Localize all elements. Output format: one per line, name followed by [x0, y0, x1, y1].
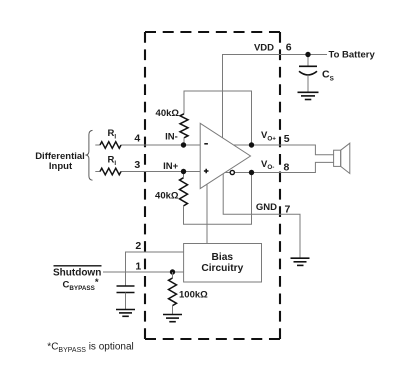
brace for differential input: [85, 130, 92, 180]
svg-text:7: 7: [285, 204, 291, 216]
svg-text:4: 4: [134, 133, 140, 145]
wire: Cs to ground: [307, 75, 309, 93]
resistor 40k bottom: [180, 178, 188, 206]
svg-text:100kΩ: 100kΩ: [179, 290, 208, 301]
svg-text:6: 6: [286, 42, 292, 54]
wire: VO- stub through bubble to triangle edge: [225, 172, 235, 174]
wire: op-amp ground to GND pin 7: [223, 174, 300, 258]
svg-text:3: 3: [134, 159, 140, 171]
wire: IN+ input row (pin 3): [95, 171, 100, 173]
capacitor Cs (polarized): [299, 66, 317, 75]
shutdown overline: [54, 265, 102, 267]
wire: VDD rail from op-amp top to battery: [223, 55, 328, 138]
wire: top feedback loop (VO+ to 40k top): [184, 91, 252, 145]
speaker: [334, 143, 350, 173]
svg-text:VDD: VDD: [254, 43, 274, 54]
junction node at pin 1 / 100k: [170, 269, 175, 274]
wire: pin 2 branch to bias box: [126, 252, 184, 272]
svg-text:2: 2: [135, 240, 141, 252]
svg-text:40kΩ: 40kΩ: [156, 108, 180, 119]
op-amp plus sign: [204, 169, 209, 174]
wire: VO- output to pin 8: [235, 162, 334, 172]
junction node IN-: [181, 142, 186, 147]
wire: 40k top to IN- node: [183, 138, 185, 145]
IC boundary dashed box: [145, 31, 280, 33]
svg-text:Bias: Bias: [212, 252, 234, 263]
svg-text:To Battery: To Battery: [329, 50, 376, 61]
wire: IN- input row (pin 4): [95, 144, 100, 146]
svg-text:Input: Input: [49, 161, 73, 172]
wire: bottom feedback loop (40k bottom to VO-): [184, 173, 252, 225]
svg-text:40kΩ: 40kΩ: [155, 190, 179, 201]
wire: battery node to Cs: [307, 55, 309, 67]
inversion bubble on VO-: [230, 170, 234, 174]
resistor 100k: [169, 278, 177, 306]
svg-text:GND: GND: [256, 202, 277, 213]
svg-text:8: 8: [284, 161, 290, 173]
wire: Cbypass to ground: [125, 293, 127, 310]
wire: shutdown input (pin 1): [103, 271, 184, 273]
resistor RI (top, in series with IN-): [100, 142, 121, 149]
ground symbol below Cbypass: [116, 310, 135, 317]
svg-text:IN-: IN-: [165, 131, 178, 142]
ground symbol at pin 7: [291, 258, 310, 265]
wire: op-amp to bias circuitry: [206, 184, 208, 243]
wire: IN+ node to 40k bottom: [183, 172, 185, 178]
resistor 40k top: [180, 114, 188, 138]
capacitor Cbypass: [117, 286, 135, 293]
op-amp U1 triangle: [200, 123, 250, 188]
wire: Cbypass branch: [125, 272, 127, 286]
wire: 100k to ground: [172, 306, 174, 315]
wire: 100k to node: [172, 272, 174, 278]
bias circuitry box: [184, 244, 262, 283]
junction node VO-: [249, 170, 254, 175]
junction node at battery: [305, 52, 310, 57]
svg-text:IN+: IN+: [163, 161, 179, 172]
wire: VO+ output to pin 5: [233, 145, 333, 155]
ground symbol below 100k: [163, 315, 182, 322]
ground symbol below Cs: [298, 92, 319, 99]
op-amp minus sign: [204, 143, 208, 145]
junction node VO+: [249, 142, 254, 147]
resistor RI (bottom, in series with IN+): [100, 168, 121, 175]
junction node IN+: [181, 169, 186, 174]
svg-text:Circuitry: Circuitry: [201, 263, 243, 274]
svg-text:1: 1: [135, 260, 141, 272]
svg-text:5: 5: [284, 133, 290, 145]
